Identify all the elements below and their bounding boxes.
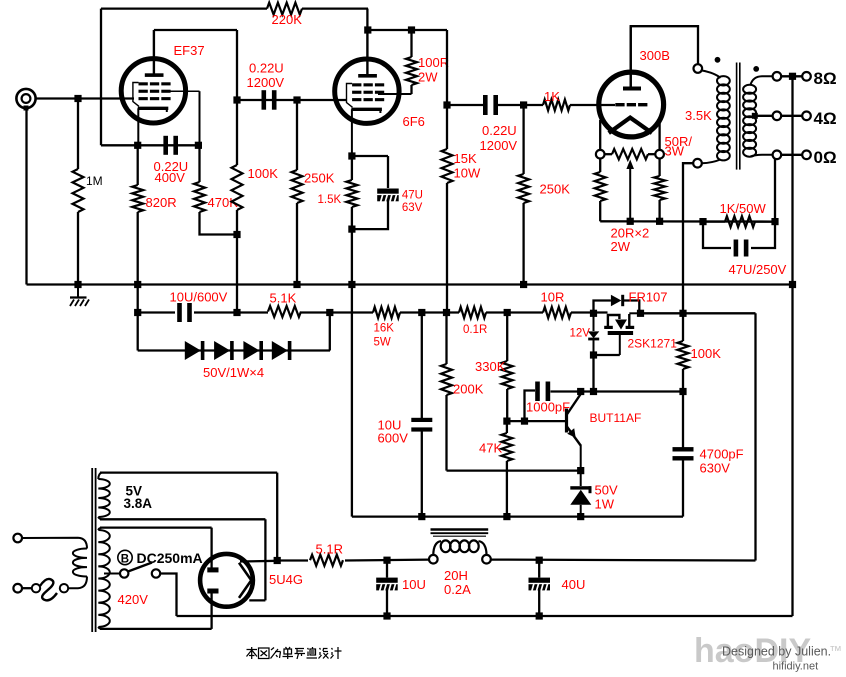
- label 47K: [479, 441, 502, 456]
- svg-text:5.1K: 5.1K: [270, 291, 297, 306]
- wire gnd drop to Bplus cap: [137, 285, 139, 313]
- junction diode string top: [326, 309, 333, 316]
- B switch symbol: [118, 550, 132, 565]
- label 4ohm: [814, 109, 837, 128]
- resistor 220K: [267, 3, 302, 15]
- svg-text:3.5K: 3.5K: [685, 108, 712, 123]
- resistor 5.1K: [268, 306, 301, 317]
- svg-text:10R: 10R: [541, 290, 565, 305]
- wire screen feed drop: [446, 30, 448, 105]
- label BUT11AF: [590, 411, 642, 425]
- svg-text:0.1R: 0.1R: [463, 324, 487, 336]
- junction drain node: [637, 310, 644, 317]
- input jack J1: [16, 89, 35, 111]
- wire psu ground row: [177, 615, 793, 617]
- capacitor 0.22U 1200V: [262, 90, 277, 110]
- label 470K: [208, 195, 239, 210]
- tube 5U4G: [200, 554, 253, 607]
- junction gnd 250K: [293, 281, 300, 288]
- junction input node: [74, 95, 81, 102]
- wire plate drop x237: [236, 30, 238, 100]
- svg-text:40U: 40U: [562, 577, 586, 592]
- junction cathode node: [134, 142, 141, 149]
- terminal 4ohm right: [802, 112, 811, 121]
- junction psu gnd 40U: [536, 612, 543, 619]
- junction emitter node: [577, 467, 584, 474]
- wire cathode row: [101, 144, 200, 146]
- wire cathode RC top: [352, 156, 388, 188]
- svg-text:EF37: EF37: [174, 43, 205, 58]
- label 47U 63V: [402, 190, 423, 215]
- watermark haoDIY: [694, 632, 842, 670]
- junction 10U psu: [383, 557, 390, 564]
- label 15K 10W: [454, 151, 481, 181]
- svg-text:20H: 20H: [444, 568, 468, 583]
- switch HT left: [120, 569, 128, 577]
- diode 50V 1W d: [272, 341, 292, 360]
- wire 300B filament left: [599, 120, 601, 150]
- mains primary coil: [73, 548, 87, 576]
- winding 5V: [98, 473, 110, 520]
- junction 6F6 cathode top: [348, 152, 355, 159]
- wire screen drop x199: [199, 91, 201, 182]
- junction 250K2 top: [520, 101, 527, 108]
- mains terminal top: [13, 534, 22, 543]
- transistor BUT11AF: [567, 394, 581, 471]
- potentiometer 50R 3W: [605, 149, 656, 159]
- wire 0ohm: [781, 154, 802, 156]
- junction 8ohm feedback: [789, 73, 796, 80]
- junction gnd 1M: [74, 281, 81, 288]
- wire EF37 plate to top: [154, 29, 237, 31]
- label 100R 2W: [418, 55, 449, 85]
- svg-text:47U: 47U: [402, 190, 423, 202]
- svg-text:400V: 400V: [155, 170, 186, 185]
- capacitor 4700pF 630V: [673, 392, 694, 517]
- junction Bplus x683: [679, 310, 686, 317]
- label 2SK1271: [628, 337, 678, 351]
- junction 1K50W left: [699, 218, 706, 225]
- terminal 4ohm left: [773, 112, 782, 121]
- wire 0ohm drop to 1K50W: [774, 159, 776, 222]
- resistor 15K 10W: [442, 105, 453, 313]
- wire Bplus riser: [754, 313, 756, 560]
- resistor 1M: [73, 99, 84, 285]
- resistor 16K 5W: [373, 307, 400, 318]
- svg-text:0Ω: 0Ω: [814, 148, 837, 167]
- label 5.1K: [270, 291, 297, 306]
- junction plate node: [233, 96, 240, 103]
- resistor 20R right: [654, 159, 665, 222]
- capacitor 47U 250V: [734, 240, 749, 257]
- wire jack ground drop: [25, 108, 27, 284]
- label 5U4G: [269, 572, 303, 587]
- svg-text:47K: 47K: [479, 441, 502, 456]
- wire cathode RC bottom: [352, 199, 388, 229]
- resistor 330K: [502, 313, 513, 422]
- terminal 8ohm left: [773, 72, 782, 81]
- junction 100K reg bottom: [679, 388, 686, 395]
- capacitor 1000pF: [525, 382, 551, 422]
- label 40U psu: [562, 577, 586, 592]
- terminal pot right: [655, 150, 664, 159]
- junction 470K-100K node: [233, 231, 240, 238]
- junction 1K50W right: [771, 218, 778, 225]
- junction gnd 6F6 cathode: [348, 281, 355, 288]
- svg-text:8Ω: 8Ω: [814, 69, 837, 88]
- svg-text:1.5K: 1.5K: [318, 194, 342, 206]
- tube 300B: [598, 26, 664, 137]
- svg-text:100R: 100R: [418, 55, 449, 70]
- wire 300B grid row: [447, 104, 615, 106]
- capacitor 10U psu: [376, 560, 398, 616]
- wire secondary top tap: [751, 76, 773, 85]
- resistor 1.5K: [346, 156, 357, 285]
- wire 420V bottom: [100, 593, 212, 629]
- wire secondary bottom tap: [751, 155, 773, 157]
- svg-text:630V: 630V: [700, 461, 731, 476]
- label 50V 1Wx4: [203, 365, 264, 380]
- wire cathode rail: [600, 220, 775, 223]
- label 10R: [541, 290, 565, 305]
- svg-text:16K: 16K: [374, 323, 395, 335]
- tube 6F6: [335, 30, 412, 156]
- resistor 250K second: [518, 105, 529, 285]
- svg-text:3.8A: 3.8A: [124, 496, 153, 511]
- capacitor 10U 600V vert: [411, 313, 432, 517]
- label 10U 600V series: [170, 290, 228, 305]
- resistor 20R left: [595, 159, 606, 222]
- label 200K: [453, 382, 484, 397]
- svg-text:100K: 100K: [691, 346, 722, 361]
- zener 50V 1W: [570, 471, 591, 517]
- wire 6F6 plate rail: [367, 9, 447, 30]
- label 12V: [570, 328, 591, 340]
- label 10U psu: [402, 577, 426, 592]
- diode 50V 1W b: [214, 341, 234, 360]
- junction reg rail 47K: [503, 513, 510, 520]
- resistor 1K: [543, 100, 570, 111]
- label 8ohm: [814, 69, 837, 88]
- resistor 47K: [501, 421, 512, 516]
- wire 300B plate top: [631, 26, 698, 87]
- wire feedback left drop: [100, 9, 102, 146]
- choke 20H core: [431, 530, 489, 537]
- svg-text:10U: 10U: [402, 577, 426, 592]
- junction wiper bottom: [627, 218, 634, 225]
- capacitor 40U psu: [529, 560, 551, 616]
- svg-text:6F6: 6F6: [403, 114, 425, 129]
- winding 420V: [98, 528, 110, 629]
- wire diode string: [138, 313, 330, 351]
- wire 5V top: [100, 473, 277, 561]
- label 16K 5W: [374, 323, 395, 349]
- label 1K: [544, 89, 560, 104]
- svg-text:2W: 2W: [418, 70, 438, 85]
- label 0.22U 1200V second: [480, 123, 518, 153]
- junction gnd 250K second: [520, 281, 527, 288]
- junction source row left: [577, 388, 584, 395]
- wire diode string left: [137, 313, 139, 351]
- svg-text:250K: 250K: [304, 171, 335, 186]
- label 250K: [304, 171, 335, 186]
- svg-text:5U4G: 5U4G: [269, 572, 303, 587]
- svg-text:220K: 220K: [272, 12, 303, 27]
- resistor 1K 50W: [703, 216, 775, 227]
- terminal pot left: [596, 150, 605, 159]
- svg-text:4Ω: 4Ω: [814, 109, 837, 128]
- label 100K reg: [691, 346, 722, 361]
- wire 300B filament right: [658, 120, 660, 150]
- label 1M: [86, 174, 103, 188]
- svg-text:63V: 63V: [402, 202, 423, 214]
- zener 12V: [588, 313, 599, 355]
- junction 200K top: [443, 309, 450, 316]
- junction cathode RC bottom: [348, 226, 355, 233]
- svg-text:BUT11AF: BUT11AF: [590, 411, 642, 425]
- svg-text:1000pF: 1000pF: [526, 400, 570, 415]
- label FR107: [629, 290, 668, 305]
- junction 6F6 plate: [364, 26, 371, 33]
- svg-text:10W: 10W: [454, 166, 481, 181]
- wire ground rail: [27, 283, 793, 285]
- capacitor 47U 63V: [377, 189, 399, 203]
- wire Bplus rail: [138, 311, 756, 314]
- capacitor 10U 600V series: [177, 303, 192, 322]
- label 47U 250V: [729, 262, 787, 277]
- credit hifidiy.net: [773, 661, 819, 673]
- svg-text:5W: 5W: [374, 337, 391, 349]
- resistor 5.1R: [310, 555, 343, 566]
- tube EF37: [121, 30, 199, 145]
- svg-text:200K: 200K: [453, 382, 484, 397]
- label 220K: [272, 12, 303, 27]
- junction source row mid: [590, 388, 597, 395]
- svg-text:820R: 820R: [146, 195, 177, 210]
- primary phase dot: [715, 57, 721, 63]
- junction rectifier out: [274, 557, 281, 564]
- terminal 8ohm right: [802, 72, 811, 81]
- label EF37: [174, 43, 205, 58]
- capacitor 0.22U 400V: [163, 136, 178, 155]
- junction Bplus x237: [233, 309, 240, 316]
- note mono channel text: [247, 647, 342, 659]
- svg-text:0.22U: 0.22U: [249, 61, 284, 76]
- secondary phase dot: [753, 66, 759, 72]
- wire top feedback rail: [101, 7, 368, 9]
- svg-text:250K: 250K: [540, 182, 571, 197]
- label 420V: [118, 592, 149, 607]
- label DC250mA: [137, 550, 203, 566]
- mains terminal bottom: [13, 584, 22, 593]
- resistor 470K: [194, 182, 237, 235]
- svg-text:0.2A: 0.2A: [444, 582, 471, 597]
- resistor 250K grid: [292, 100, 303, 285]
- junction reg rail 10U: [418, 513, 425, 520]
- junction reg rail zener: [577, 513, 584, 520]
- svg-text:hifidiy.net: hifidiy.net: [773, 661, 819, 673]
- resistor 200K: [441, 313, 452, 471]
- junction screen node: [443, 101, 450, 108]
- svg-text:600V: 600V: [378, 431, 409, 446]
- svg-text:0.22U: 0.22U: [482, 123, 517, 138]
- junction gate node: [590, 310, 597, 317]
- wire input to grid: [36, 97, 134, 99]
- junction 20R right bottom: [656, 218, 663, 225]
- choke 20H 0.2A: [429, 540, 491, 563]
- svg-text:1M: 1M: [86, 174, 103, 188]
- switch mains: [32, 577, 87, 601]
- svg-text:10U/600V: 10U/600V: [170, 290, 228, 305]
- terminal 0ohm right: [802, 151, 811, 160]
- svg-text:1K/50W: 1K/50W: [720, 201, 767, 216]
- resistor 100R 2W: [406, 30, 417, 94]
- label 1000pF: [526, 400, 570, 415]
- label 10U 600V vert: [378, 418, 409, 446]
- svg-text:FR107: FR107: [629, 290, 668, 305]
- wire primary bottom feed: [683, 163, 694, 313]
- switch HT right: [152, 569, 160, 577]
- wire emitter row: [447, 469, 581, 471]
- svg-text:50V/1W×4: 50V/1W×4: [203, 365, 264, 380]
- label 300B: [640, 48, 670, 63]
- junction 100R top: [408, 26, 415, 33]
- capacitor 0.22U 1200V second: [483, 95, 498, 115]
- svg-text:3W: 3W: [665, 144, 685, 159]
- label 3.5K: [685, 108, 712, 123]
- mosfet 2SK1271: [604, 313, 640, 355]
- wire source row: [551, 390, 684, 392]
- junction grid node 6F6: [293, 96, 300, 103]
- wire 420V top: [100, 528, 212, 568]
- svg-text:50V: 50V: [595, 483, 618, 498]
- svg-text:B: B: [121, 554, 129, 566]
- label 20Rx2 2W: [611, 226, 650, 255]
- wire 8ohm: [781, 75, 802, 77]
- label 20H 0.2A: [444, 568, 471, 597]
- junction base row left: [503, 418, 510, 425]
- wire 4ohm: [781, 115, 802, 117]
- resistor 820R: [132, 145, 143, 284]
- label 6F6: [403, 114, 425, 129]
- label 4700pF 630V: [700, 447, 744, 476]
- label 250K second: [540, 182, 571, 197]
- svg-text:300B: 300B: [640, 48, 670, 63]
- label 0.22U 1200V: [247, 61, 285, 91]
- junction 10U600V-2 top: [418, 309, 425, 316]
- junction source node: [590, 351, 620, 391]
- svg-text:1W: 1W: [595, 497, 615, 512]
- label 1K 50W: [720, 201, 767, 216]
- svg-text:2W: 2W: [611, 239, 631, 254]
- label 1.5K: [318, 194, 342, 206]
- junction 1000pF left bottom: [521, 418, 528, 425]
- svg-text:5.1R: 5.1R: [316, 542, 343, 557]
- resistor 100K reg: [678, 313, 689, 391]
- transformer 3.5K primary: [693, 64, 730, 167]
- junction ground riser at rail: [789, 281, 796, 288]
- wire mains bottom stub: [22, 587, 32, 589]
- label 5V 3.8A: [124, 484, 153, 512]
- svg-text:330K: 330K: [475, 359, 506, 374]
- junction 40U psu: [536, 557, 543, 564]
- svg-text:1K: 1K: [544, 89, 560, 104]
- switch HT arm: [128, 563, 152, 572]
- diode 50V 1W c: [243, 341, 263, 360]
- transformer core: [737, 63, 740, 170]
- svg-text:100K: 100K: [248, 166, 279, 181]
- resistor 10R: [543, 307, 571, 318]
- svg-text:47U/250V: 47U/250V: [729, 262, 787, 277]
- terminal 0ohm left: [773, 151, 782, 160]
- wire filament top out: [240, 560, 277, 563]
- resistor 0.1R: [459, 307, 486, 318]
- wire 5V bottom: [100, 519, 265, 600]
- credit Designed by Julien: [722, 645, 831, 659]
- wire coupling row: [237, 99, 346, 101]
- wire HT switch out: [160, 574, 176, 617]
- label 0.1R: [463, 324, 487, 336]
- label 330K: [475, 359, 506, 374]
- wire regulator ground rail: [352, 515, 683, 517]
- ground symbol: [70, 285, 89, 307]
- wire 47U250V loop: [703, 222, 775, 248]
- svg-text:2SK1271: 2SK1271: [628, 337, 678, 351]
- junction 330K top: [504, 309, 511, 316]
- svg-text:12V: 12V: [570, 328, 591, 340]
- diode 50V 1W a: [185, 341, 205, 360]
- label 50R 3W: [665, 134, 693, 159]
- pot wiper arrow: [626, 160, 634, 222]
- label 0ohm: [814, 148, 837, 167]
- wire mains top: [22, 538, 87, 549]
- wire gnd drop x352: [351, 285, 353, 517]
- resistor 100K: [232, 100, 243, 313]
- junction cap right node: [195, 142, 202, 149]
- junction gnd 820R: [134, 281, 141, 288]
- svg-text:1200V: 1200V: [480, 138, 518, 153]
- junction psu gnd 10U: [383, 612, 390, 619]
- wire ground riser x792: [791, 76, 793, 616]
- wire psu row: [277, 558, 755, 561]
- label 820R: [146, 195, 177, 210]
- label 100K: [248, 166, 279, 181]
- junction Bplus cap left: [134, 309, 141, 316]
- label 5.1R: [316, 542, 343, 557]
- wire base row: [507, 420, 567, 422]
- svg-text:420V: 420V: [118, 592, 149, 607]
- svg-text:1200V: 1200V: [247, 75, 285, 90]
- transformer 3.5K secondary: [743, 85, 756, 157]
- svg-text:Designed by Julien.: Designed by Julien.: [722, 645, 831, 659]
- diode FR107: [594, 295, 640, 314]
- power transformer core: [92, 468, 95, 632]
- secondary 4ohm tap: [752, 113, 773, 119]
- label 0.22U 400V: [154, 159, 189, 185]
- wire center tap: [104, 573, 120, 575]
- svg-text:15K: 15K: [454, 151, 477, 166]
- label 50V 1W: [595, 483, 618, 512]
- svg-text:4700pF: 4700pF: [700, 447, 744, 462]
